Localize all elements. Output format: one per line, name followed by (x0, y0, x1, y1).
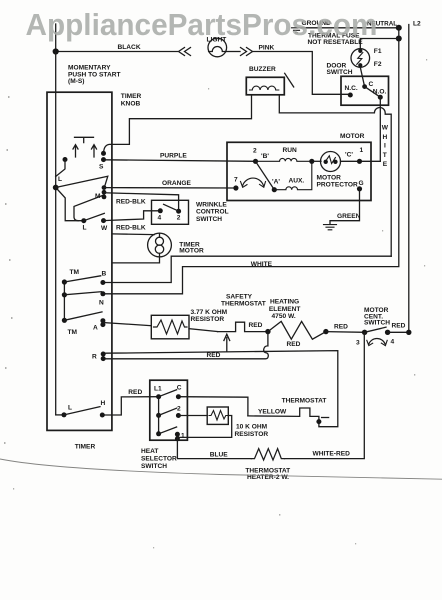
svg-text:2: 2 (253, 147, 257, 154)
svg-text:4: 4 (158, 215, 162, 222)
10 K resistor zigzag (209, 411, 228, 421)
svg-text:B: B (102, 271, 107, 278)
node motor terminal 7 (233, 185, 238, 190)
svg-text:SWITCH: SWITCH (141, 463, 167, 470)
wire A row to 3.77K resistor (103, 323, 151, 326)
operating thermostat yellow line and bump (248, 408, 319, 420)
wire light to pink arrows (226, 51, 240, 53)
svg-text:'B': 'B' (261, 153, 269, 160)
node heating element right junction (323, 329, 328, 334)
svg-text:GREEN: GREEN (337, 213, 361, 220)
wire C to yellow (178, 397, 248, 416)
scan speckles (4, 59, 427, 548)
svg-text:L: L (83, 225, 87, 232)
node timer H contact (100, 413, 105, 418)
svg-text:N.O.: N.O. (373, 89, 387, 96)
wire left contact to bus (56, 160, 65, 177)
node wrinkle contact 2 (176, 209, 181, 214)
svg-text:G: G (359, 180, 364, 187)
heat selector arm L1-C (159, 390, 177, 397)
node L common junction (53, 185, 59, 191)
node timer S contacts (101, 151, 106, 156)
wire M to wrinkle switch 2 (104, 193, 179, 211)
node heat selector C (176, 394, 181, 399)
svg-text:YELLOW: YELLOW (258, 408, 287, 415)
svg-text:MOTOR: MOTOR (340, 133, 365, 140)
wire blue 1 to thermostat heater (177, 439, 251, 459)
svg-text:PURPLE: PURPLE (160, 153, 187, 160)
node timer W contact (101, 218, 106, 223)
svg-text:2: 2 (177, 406, 181, 413)
svg-text:N: N (99, 300, 104, 307)
node thermostat contact (316, 419, 321, 424)
svg-text:SWITCH: SWITCH (327, 69, 353, 76)
svg-text:RED: RED (287, 341, 301, 348)
svg-text:RED-BLK: RED-BLK (116, 199, 146, 206)
svg-text:W: W (382, 125, 389, 132)
svg-text:ORANGE: ORANGE (162, 180, 192, 187)
svg-text:HEATING: HEATING (270, 299, 299, 306)
svg-text:CONTROL: CONTROL (196, 209, 229, 216)
aux winding (274, 161, 312, 189)
svg-text:E: E (383, 161, 388, 168)
svg-text:WHITE: WHITE (251, 261, 273, 268)
svg-text:RESISTOR: RESISTOR (235, 431, 269, 438)
svg-text:THERMOSTAT: THERMOSTAT (221, 301, 266, 308)
TM common bus (63, 282, 65, 320)
svg-text:MOTOR: MOTOR (317, 174, 342, 181)
timer arm TM to A (64, 312, 102, 320)
wire 2 to 10K resistor (178, 415, 207, 417)
svg-text:(M-S): (M-S) (68, 78, 84, 85)
node door switch N.C. (348, 93, 353, 98)
svg-text:RED: RED (128, 389, 142, 396)
svg-text:RESISTOR: RESISTOR (191, 316, 225, 323)
thermostat heater zigzag (251, 449, 284, 460)
wire 10K resistor return to 1 (177, 416, 231, 438)
safety thermostat arm arrow (224, 334, 230, 351)
thermal fuse (not resetable) (351, 49, 370, 68)
svg-text:L: L (58, 176, 62, 183)
wire red-blk W to wrinkle switch 4 (104, 211, 161, 221)
safety thermostat (218, 322, 268, 331)
svg-text:MOMENTARY: MOMENTARY (68, 65, 111, 72)
wrinkle switch arm (164, 204, 179, 211)
svg-text:C: C (177, 384, 182, 391)
svg-text:THERMOSTAT: THERMOSTAT (282, 397, 327, 404)
node heating element left junction (265, 329, 270, 334)
svg-text:HEAT: HEAT (141, 448, 158, 455)
svg-text:SWITCH: SWITCH (196, 216, 222, 223)
node timer L contact (81, 218, 86, 223)
node wrinkle contact 4 (158, 208, 163, 213)
svg-text:TM: TM (70, 269, 80, 276)
svg-text:KNOB: KNOB (121, 101, 141, 108)
svg-text:R: R (92, 354, 97, 361)
wire purple S to motor B (105, 160, 256, 162)
node TM contact 2 (62, 292, 67, 297)
ground symbol at motor (324, 225, 337, 230)
wire red element to cent switch 3 (326, 331, 365, 334)
wire neutral top line (302, 27, 399, 29)
node motor terminal A (272, 187, 277, 192)
svg-text:AppliancePartsPros.com: AppliancePartsPros.com (26, 7, 378, 42)
svg-text:SAFETY: SAFETY (226, 294, 253, 301)
wire black line L1 to light (56, 51, 178, 53)
svg-text:M: M (95, 193, 101, 200)
svg-text:F1: F1 (374, 48, 382, 55)
svg-text:T: T (383, 152, 387, 159)
heat selector switch box (150, 380, 188, 440)
svg-text:TM: TM (68, 329, 78, 336)
timer arm TM to N (64, 292, 101, 295)
10 K ohm resistor box (207, 407, 228, 424)
wire L1 drop at top left (55, 24, 57, 52)
heat selector arm L1-1 (159, 427, 177, 434)
svg-text:SWITCH: SWITCH (364, 320, 390, 327)
wire thermal fuse to neutral (360, 39, 399, 49)
timer arm L to S (56, 176, 108, 187)
svg-text:TIMER: TIMER (75, 444, 96, 451)
timer arm TM to B (64, 276, 100, 282)
node TM contact 3 (62, 318, 67, 323)
node push-to-start left contact (63, 157, 68, 162)
node M contacts (102, 185, 107, 190)
svg-text:2: 2 (177, 215, 181, 222)
node motor cent switch 3 (362, 330, 367, 335)
buzzer box (246, 77, 284, 95)
svg-text:RED: RED (334, 324, 348, 331)
node door switch C (362, 84, 367, 89)
node timer L bottom contact (62, 412, 67, 417)
svg-text:'C': 'C' (345, 151, 353, 158)
wire neutral bus down right side (103, 28, 399, 294)
svg-text:PROTECTOR: PROTECTOR (317, 181, 359, 188)
svg-text:'A': 'A' (272, 179, 280, 186)
svg-text:BLACK: BLACK (118, 44, 141, 51)
svg-text:L: L (68, 405, 72, 412)
svg-text:1: 1 (360, 147, 364, 154)
svg-text:PINK: PINK (259, 45, 275, 52)
svg-text:4: 4 (391, 339, 395, 346)
node motor terminal 1 (357, 159, 362, 164)
node motor terminal 2 B (253, 159, 258, 164)
svg-text:L1: L1 (154, 386, 162, 393)
drum light lamp (208, 38, 227, 57)
svg-text:N.C.: N.C. (345, 85, 358, 92)
connector arrows left (black wire) (179, 48, 191, 56)
svg-text:TIMER: TIMER (121, 93, 142, 100)
svg-text:AUX.: AUX. (289, 178, 305, 185)
svg-text:BLUE: BLUE (210, 451, 229, 458)
wire H to heat selector L1 (102, 397, 158, 415)
heat selector L1 bus (158, 397, 160, 434)
wrinkle control switch box (152, 200, 189, 224)
node motor cent switch 4 (385, 330, 390, 335)
svg-text:SELECTOR: SELECTOR (141, 456, 177, 463)
timer arm L to H (64, 407, 100, 415)
node heat selector 1 contacts (175, 432, 180, 437)
connector arrows right (pink wire) (241, 48, 253, 56)
motor arm B to A (256, 161, 275, 189)
wire resistor to safety thermostat (189, 329, 218, 332)
svg-text:H: H (383, 134, 388, 141)
wire timer S to buzzer (104, 95, 252, 152)
node timer B contact (100, 280, 105, 285)
timer arm L to W (84, 213, 105, 220)
wire pink to door switch N.C. (253, 52, 348, 95)
wire R lower row to element junction with crossover (105, 332, 268, 359)
timer box (47, 92, 112, 430)
svg-text:L2: L2 (413, 21, 421, 28)
svg-text:I: I (384, 143, 386, 150)
node L2 tap (406, 330, 411, 335)
heat selector arm L1-2 (159, 408, 177, 415)
svg-text:4750 W.: 4750 W. (272, 313, 296, 320)
buzzer coil (250, 86, 279, 90)
svg-text:H: H (101, 400, 106, 407)
door switch arm C to N.O. (365, 87, 381, 98)
timer motor (148, 233, 172, 257)
wire green G to ground (330, 189, 360, 225)
node L1 junction (53, 48, 59, 54)
page edge curve at bottom (0, 459, 442, 479)
svg-text:F2: F2 (374, 61, 382, 68)
motor cent switch arm (365, 327, 386, 332)
svg-text:BUZZER: BUZZER (249, 66, 276, 73)
wire red cent switch 4 to L2 (388, 331, 409, 333)
svg-text:3.77 K OHM: 3.77 K OHM (191, 309, 228, 316)
ground symbol at top (292, 28, 302, 33)
wire timer motor lower lead (112, 257, 159, 263)
wire buzzer to white with crossover hop (279, 95, 391, 256)
node heat selector 2 (176, 413, 181, 418)
svg-text:RED: RED (392, 323, 406, 330)
svg-text:WHITE-RED: WHITE-RED (313, 451, 351, 458)
wire orange M to motor 7 (104, 187, 236, 189)
motor cent switch travel arc (369, 338, 386, 344)
svg-text:RUN: RUN (283, 147, 298, 154)
wire R upper row to thermostat (105, 351, 338, 427)
node heat selector L1 contacts (156, 394, 161, 399)
svg-text:RED-BLK: RED-BLK (116, 225, 146, 232)
heating element 4750W zigzag (268, 321, 326, 339)
svg-text:WRINKLE: WRINKLE (196, 202, 227, 209)
svg-text:10 K OHM: 10 K OHM (236, 423, 268, 430)
3.77 K resistor zigzag (154, 320, 188, 334)
wire L2 bus (408, 25, 410, 333)
wire white horizontal to timer B (103, 256, 391, 282)
door switch box (341, 76, 389, 105)
node door switch N.O. (378, 95, 383, 100)
svg-text:C: C (369, 81, 374, 88)
wire white-red heater to cent switch 3 (285, 333, 365, 459)
wire protector to terminal 1 (341, 160, 381, 162)
wire main bus down left side (55, 52, 57, 415)
timer arm M lead (74, 196, 103, 221)
thermostat fixed contact dash (322, 417, 329, 419)
node timer N contact (100, 291, 105, 296)
3.77 K ohm resistor box (151, 315, 189, 339)
node neutral junction lower (396, 36, 402, 42)
run winding (256, 158, 312, 161)
push-to-start plunger (75, 137, 94, 142)
svg-text:W: W (101, 225, 108, 232)
buzzer striker arm (285, 73, 294, 87)
motor protector (321, 152, 341, 172)
motor box (227, 142, 371, 200)
svg-text:A: A (93, 325, 98, 332)
wire fuse to door switch common (360, 67, 364, 86)
node timer A contacts (100, 318, 105, 323)
svg-text:3: 3 (356, 340, 360, 347)
svg-text:MOTOR: MOTOR (179, 247, 204, 254)
wire L to L contact (56, 188, 84, 221)
push-to-start arrow left (73, 145, 78, 157)
node TM contact 1 (62, 279, 67, 284)
node motor terminal G (357, 186, 362, 191)
wire timer motor upper lead (112, 233, 154, 236)
node motor run/aux junction (309, 159, 314, 164)
svg-text:S: S (99, 164, 104, 171)
node neutral junction upper (396, 25, 402, 31)
motor centrifugal arc (243, 178, 264, 186)
push-to-start arrow right (92, 145, 97, 157)
svg-text:RED: RED (207, 352, 221, 359)
wire N.O. down to motor terminal 1 (379, 97, 381, 161)
svg-text:7: 7 (234, 177, 238, 184)
svg-text:1: 1 (181, 432, 185, 439)
svg-text:RED: RED (249, 322, 263, 329)
node timer R contacts (101, 352, 106, 357)
